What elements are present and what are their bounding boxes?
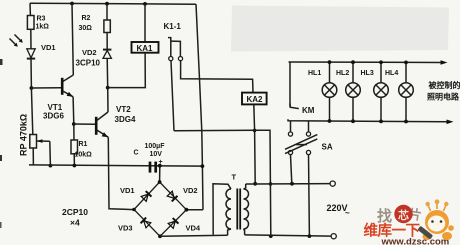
lamp HL1 — [308, 60, 337, 123]
svg-text:10V: 10V — [150, 151, 163, 158]
svg-text:VD1: VD1 — [120, 186, 135, 195]
transformer T — [213, 173, 249, 236]
lamp HL2 — [336, 60, 360, 123]
lamp HL4 — [385, 61, 413, 124]
node dot top wire / KA1 junction — [143, 2, 147, 6]
watermark logo text 找...片 — [377, 206, 423, 225]
wire node to VT2 collector — [107, 88, 109, 112]
wire SA right pole to bottom line — [308, 155, 311, 236]
wire rail down to bridge top vertex — [159, 166, 161, 182]
svg-text:K1-1: K1-1 — [164, 22, 182, 31]
svg-text:HL1: HL1 — [308, 70, 321, 77]
wire emitter node down to R1 — [73, 124, 75, 140]
wire top-left corner down to R3 — [29, 3, 31, 15]
node dot SA right pole on bottom line — [308, 234, 312, 238]
node C (VT2 collector node) — [106, 86, 110, 90]
node dot SA left pole on 220V line — [290, 182, 294, 186]
wire bridge right vertex to right vertical — [186, 209, 203, 211]
svg-text:KM: KM — [302, 106, 315, 115]
node dot mains drop on bottom mains line — [269, 234, 273, 238]
node B (VT1 emitter node) — [72, 122, 76, 126]
wire base node down to RP — [31, 88, 32, 135]
primary bottom lead — [244, 229, 245, 235]
light arrows into VD1 — [10, 35, 23, 47]
resistor R2 — [79, 15, 111, 33]
svg-text:2CP10: 2CP10 — [62, 207, 88, 217]
svg-text:C: C — [134, 150, 139, 157]
svg-text:R1: R1 — [79, 141, 88, 148]
photodiode VD1 — [27, 43, 56, 59]
emitter rail (bottom of control block) — [29, 165, 202, 166]
scan artifact grey patch top right — [231, 6, 449, 52]
node dot R1 rail — [73, 164, 77, 168]
transistor VT1 3DG6 — [31, 75, 73, 121]
diode VD1 (bridge top-left arm) — [141, 191, 152, 202]
primary top lead — [244, 184, 246, 189]
node A (VT1 base node) — [30, 86, 34, 90]
node dot top wire / R3 column junction — [70, 2, 74, 6]
svg-text:VD3: VD3 — [118, 224, 133, 233]
bottom mains wire (primary to terminal) — [245, 235, 331, 236]
220V line upper — [246, 183, 330, 185]
lamp circuit top feed wire with arrow — [289, 60, 448, 65]
svg-text:RP 470kΩ: RP 470kΩ — [19, 114, 29, 156]
wire SA top poles to lamp return wire — [290, 121, 292, 132]
svg-text:1kΩ: 1kΩ — [36, 24, 50, 31]
node dot top wire / R2 column junction — [105, 2, 109, 6]
diode VD2 (bridge top-right arm) — [167, 191, 178, 202]
secondary winding (left) — [226, 189, 231, 229]
node dot mains drop crossing 220V line — [269, 182, 273, 186]
svg-text:KA1: KA1 — [137, 44, 154, 53]
wire top to R2 — [106, 4, 108, 20]
bottom mains wire (bridge to secondary) — [160, 235, 228, 236]
svg-text:10kΩ: 10kΩ — [75, 152, 93, 159]
svg-text:R2: R2 — [82, 15, 91, 22]
svg-text:VD4: VD4 — [186, 224, 201, 233]
wire R3 to VD1 — [30, 29, 32, 49]
svg-text:×4: ×4 — [70, 218, 80, 228]
wire K1-1 left leg across to mains drop — [174, 130, 271, 236]
wire KA2 bottom down to 220V line — [254, 104, 255, 183]
svg-text:VD2: VD2 — [183, 186, 198, 195]
right edge long vertical wire — [196, 4, 203, 210]
switch SA (double pole) — [285, 132, 333, 155]
secondary bottom lead — [228, 229, 231, 235]
lamp HL3 — [361, 60, 389, 123]
relay coil KA2 — [242, 93, 267, 105]
diode VD3 (bridge bottom-left arm) — [141, 218, 152, 229]
svg-text:HL2: HL2 — [336, 70, 349, 77]
lamp return wire with arrow — [288, 119, 454, 124]
core — [236, 189, 238, 230]
svg-text:SA: SA — [322, 143, 333, 152]
wire VD1 to base node — [30, 59, 32, 88]
wire emitter node to VT2 base — [74, 123, 96, 125]
svg-text:R3: R3 — [37, 16, 46, 23]
terminal circle upper 220V — [330, 181, 335, 186]
wire K1-1 left contact down — [171, 61, 174, 131]
relay coil KA1 — [108, 4, 159, 88]
wire K1-1 right contact to KA2 top — [181, 61, 253, 93]
watermark red seal — [394, 205, 412, 223]
svg-text:找: 找 — [377, 207, 392, 225]
svg-text:VD2: VD2 — [82, 48, 97, 57]
watermark mascot — [417, 199, 453, 240]
svg-text:被控制的: 被控制的 — [429, 80, 460, 90]
secondary top lead hook — [213, 184, 231, 235]
resistor R1 — [71, 140, 92, 159]
bridge labels — [62, 186, 201, 233]
wire VT1 emitter down — [72, 97, 75, 124]
node dot bridge top on rail — [158, 164, 162, 168]
bridge rectifier diamond 2CP10 x4 — [132, 180, 188, 238]
resistor R3 — [27, 16, 49, 31]
svg-text:3DG4: 3DG4 — [115, 115, 136, 124]
svg-text:100µF: 100µF — [145, 143, 166, 150]
label controlled lighting circuit — [427, 80, 460, 102]
node dot KA2/contact wire junction — [253, 129, 257, 133]
relay contact K1-1 — [164, 22, 183, 61]
node dot RP wiper to rail — [49, 164, 53, 168]
capacitor C 100uF 10V — [134, 143, 166, 173]
label 220V — [327, 203, 351, 218]
svg-text:照明电路: 照明电路 — [427, 92, 460, 102]
wire R1 to rail — [73, 154, 75, 166]
wire top to VT1 collector — [72, 4, 73, 76]
svg-text:T: T — [232, 173, 237, 182]
svg-text:3DG6: 3DG6 — [43, 112, 64, 121]
svg-text:3CP10: 3CP10 — [76, 59, 101, 68]
svg-text:VD1: VD1 — [41, 43, 56, 52]
wire SA left pole to 220V line — [291, 155, 292, 184]
wire R2 to VD2 — [106, 33, 108, 50]
transistor VT2 3DG4 — [96, 105, 136, 137]
contactor contact KM on lamp feed — [290, 62, 315, 115]
top supply wire — [30, 2, 196, 5]
wire VD2 to collector node — [106, 58, 109, 87]
terminal circle lower 220V — [331, 234, 336, 239]
node dot KA2 wire to mains line — [253, 182, 257, 186]
diode VD4 (bridge bottom-right arm) — [168, 218, 179, 229]
svg-text:KA2: KA2 — [247, 95, 264, 104]
node dot rail meets right vertical — [201, 164, 205, 168]
potentiometer RP 470k — [19, 114, 51, 166]
left edge scan marks — [0, 59, 3, 228]
svg-text:HL3: HL3 — [361, 70, 374, 77]
svg-text:HL4: HL4 — [385, 70, 398, 77]
svg-text:芯: 芯 — [398, 208, 409, 222]
primary winding (right) — [244, 189, 249, 229]
svg-text:www.dzsc.com: www.dzsc.com — [381, 237, 450, 245]
svg-text:~: ~ — [345, 209, 350, 218]
diode VD2 3CP10 — [76, 48, 112, 68]
svg-text:VT2: VT2 — [116, 105, 131, 114]
svg-text:30Ω: 30Ω — [79, 25, 93, 32]
wire VT2 emitter down to bridge left vertex — [108, 137, 134, 209]
